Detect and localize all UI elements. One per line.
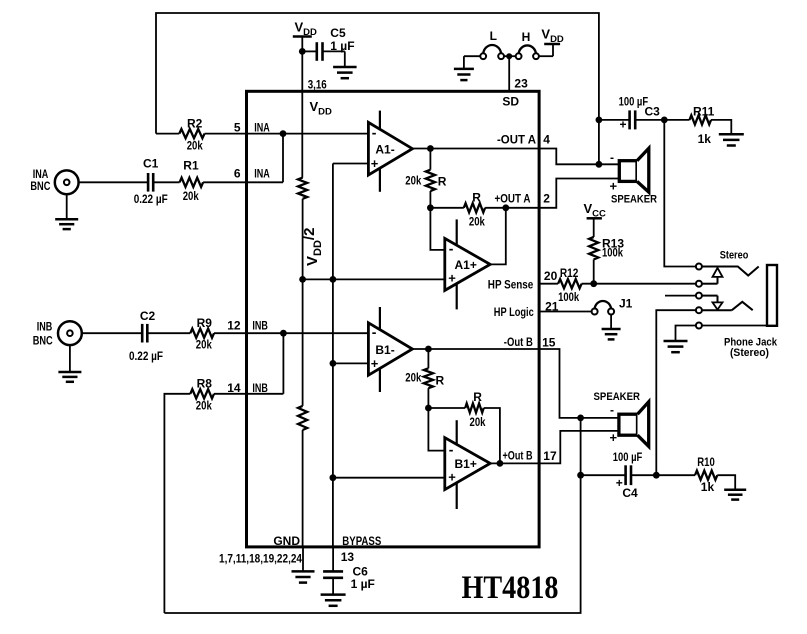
wire B1+ output [490,462,539,464]
wire +OUTA to pin2 [506,207,539,209]
node speaker B minus [577,415,584,422]
wire R11 to ground [711,120,731,134]
jack switch arm upper [702,268,723,284]
svg-text:J1: J1 [619,296,633,310]
wire C2 to R9 [148,332,190,334]
wire -OutB to pin15 [428,348,539,350]
svg-text:-OUT A: -OUT A [497,132,536,146]
wire A1- output [412,148,430,150]
wire jack sleeve left [676,326,696,342]
svg-text:1,7,11,18,19,22,24: 1,7,11,18,19,22,24 [219,552,302,566]
speaker B [594,391,649,446]
wire loop to R2 [156,133,179,135]
svg-text:GND: GND [273,534,300,548]
label pin 6 INA [234,167,270,181]
wire pin21 HP Logic [539,311,592,313]
wire R1 to pin6 INA [203,181,283,183]
wire B1+ minus input [428,408,444,451]
wire R10 to ground [717,475,735,490]
resistor R upper A (20k) [405,170,446,191]
label pin 23 SD [502,77,528,109]
op-amp A1+ [445,219,490,309]
wire A1+ output up [490,208,506,265]
svg-text:BNC: BNC [33,333,53,347]
capacitor C6 [323,565,375,595]
wire divider lower [302,279,304,406]
node divider mid [299,276,306,283]
svg-text:HP Sense: HP Sense [488,278,534,292]
node C4 left [577,472,584,479]
svg-text:23: 23 [514,77,528,91]
svg-text:A1-: A1- [375,143,394,157]
wire R13 to HP Sense [593,259,595,283]
label pin 15 -Out B [504,335,556,350]
node B mid [425,405,432,412]
svg-text:C5: C5 [330,26,346,40]
wire C1 to R1 [154,181,180,183]
svg-text:H: H [522,30,531,44]
BNC connector INA [30,167,78,194]
resistor R2 [179,116,204,152]
svg-text:20k: 20k [405,173,421,187]
capacitor C5 [317,26,355,61]
svg-text:R8: R8 [197,376,213,390]
svg-text:C4: C4 [622,486,638,500]
ground GND pin [292,571,315,582]
node rail at B1+ row [330,474,337,481]
svg-text:1k: 1k [701,480,715,494]
svg-text:+: + [610,430,618,445]
svg-text:-: - [610,403,614,417]
wire to R horizontal B [428,407,465,409]
wire jack sleeve to body [702,325,767,327]
wire pin2 to speaker A plus [539,179,619,208]
wire BNC INA to C1 [79,181,148,183]
op-amp B1+ [445,420,490,509]
svg-text:INB: INB [252,381,268,395]
svg-text:L: L [490,29,497,43]
svg-text:100k: 100k [602,246,623,260]
op-amp A1- [368,111,412,192]
resistor R10 [695,455,717,494]
svg-text:14: 14 [227,381,241,395]
resistor VDD/2 divider lower [298,406,307,430]
resistor R12 (100k) [558,266,582,304]
wire R9 to pin12 INB [214,332,283,334]
wire to R10 [656,474,695,476]
svg-text:21: 21 [545,300,559,314]
wire C5 left [302,50,316,52]
label Phone Jack [724,336,778,359]
wire pin4 to speaker A minus [539,149,619,165]
ground R11 [719,134,744,145]
svg-text:INA: INA [254,121,270,135]
svg-text:0.22 µF: 0.22 µF [129,349,163,363]
svg-text:20k: 20k [187,139,203,153]
svg-text:4: 4 [543,133,550,147]
resistor R13 (100k) [589,237,624,260]
wire speaker B minus to C4 [580,418,582,475]
node rail at B1- row [330,360,337,367]
svg-text:R10: R10 [697,455,715,469]
label BYPASS pin [341,534,382,564]
svg-text:B1+: B1+ [455,457,477,471]
wire pin6 to pin5 join [282,134,284,183]
jack contact 3 [696,293,702,299]
capacitor C2 [129,309,163,363]
svg-text:HT4818: HT4818 [462,570,559,606]
svg-text:-: - [372,125,377,141]
svg-text:0.22 µF: 0.22 µF [134,192,168,206]
svg-text:+: + [371,356,379,371]
svg-text:20: 20 [544,269,558,283]
VCC supply symbol [584,201,607,237]
wire jack ring stub [665,295,696,297]
svg-text:-Out B: -Out B [504,335,533,349]
resistor VDD/2 divider upper [298,178,307,199]
jack contact 4 [696,307,702,313]
node VDD-C5 junction [299,48,306,55]
capacitor C3 [619,94,661,131]
svg-text:R11: R11 [693,104,715,118]
svg-text:A1+: A1+ [455,258,477,272]
svg-text:20k: 20k [196,338,212,352]
ground C5 [333,67,357,78]
wire R to +OutB [484,408,500,463]
wire A1- plus branch [333,163,369,165]
jack tip spring lower [702,302,753,310]
wire BNC INA stem [66,194,68,219]
svg-text:INB: INB [37,320,53,334]
wire B1+ plus input [333,477,445,479]
label Stereo [720,250,749,262]
jack contact 5 (sleeve) [696,323,702,329]
wire R to +OUTA [485,207,506,209]
node A mid [427,204,434,211]
wire VDD rail into box [301,51,303,177]
svg-text:BYPASS: BYPASS [342,534,381,548]
wire R tap down [429,149,431,170]
wire divider middle [302,199,304,280]
ground R10 [724,490,746,500]
svg-text:12: 12 [227,319,241,333]
svg-text:R: R [436,374,445,388]
wire C3 right [636,119,664,121]
resistor R11 [690,104,715,146]
wire R8 to pin14 INB [214,393,283,395]
resistor R8 [190,376,214,412]
label pin 20 HP Sense [488,269,558,292]
label pin 17 +Out B [503,448,557,463]
svg-text:+Out B: +Out B [503,448,533,462]
op-amp B1- [368,307,412,392]
wire jack4 riser [656,310,696,475]
node C3 left [596,117,603,124]
svg-text:(Stereo): (Stereo) [730,347,769,359]
wire R to B mid [427,388,429,408]
svg-text:+: + [616,476,623,490]
resistor R feedback A (20k) [464,190,485,228]
label GND pins [219,534,302,566]
resistor R1 [180,159,204,203]
wire bottom feedback run [164,475,580,613]
jumper J1 [592,296,633,314]
node INA join [280,130,287,137]
ground BNC INA [55,219,78,229]
wire pin15 to speaker B minus [539,349,619,418]
svg-text:C1: C1 [143,156,159,170]
jack body [767,265,777,326]
jack contact 2 [696,281,702,287]
wire BNC INB stem [69,345,71,372]
wire R12 to jack [582,283,696,285]
node +OutB [497,460,504,467]
svg-text:R: R [473,390,482,404]
svg-text:17: 17 [543,449,557,463]
svg-text:3,16: 3,16 [308,78,327,92]
svg-text:-: - [372,324,377,340]
ground C6 [321,595,346,606]
svg-text:20k: 20k [196,399,212,413]
wire R tap down B [427,349,429,368]
wire BYPASS pin down [332,478,334,572]
label HT4818 [462,570,559,606]
resistor R9 [190,316,214,352]
node HP Sense [590,280,597,287]
node speaker A minus [596,161,603,168]
wire to R horizontal A [430,207,463,209]
IC box HT4818 [247,91,540,547]
svg-text:INA: INA [254,167,270,181]
wire C3 node to jack tip [664,120,696,267]
wire VDD/2 rail [332,164,334,478]
svg-text:BNC: BNC [30,179,50,193]
label pin 14 INB [227,381,268,395]
svg-text:SPEAKER: SPEAKER [611,194,657,206]
ground BNC INB [58,372,81,382]
wire A1+ minus input [430,208,444,250]
wire pin14 to pin12 join [282,333,284,394]
resistor R upper B (20k) [405,368,444,388]
wire C3 left [599,119,629,121]
node INB join [280,330,287,337]
svg-text:R: R [438,174,447,188]
wire pin20 to R12 [539,283,558,285]
ground jumper L [454,69,474,80]
jack contact 1 (tip L) [696,264,702,270]
svg-text:C3: C3 [645,105,661,119]
wire pin17 to speaker B plus [539,431,619,464]
BNC connector INB [33,320,82,348]
wire A1+ plus input [303,278,445,280]
ground J1 [602,329,621,339]
svg-text:1k: 1k [698,132,712,146]
label pin 12 INB [227,319,268,333]
svg-text:SPEAKER: SPEAKER [594,391,641,403]
resistor R feedback B (20k) [465,390,486,429]
wire B1- minus input [283,332,368,334]
node +OUTA [502,204,509,211]
jack tip spring upper [702,267,759,276]
node rail at A1+ row [330,276,337,283]
wire -OUTA node vertical to speaker minus [598,120,600,164]
capacitor C4 [613,450,643,500]
wire R to +OUTA node [429,191,431,208]
jack switch arm lower [702,296,723,310]
wire to R11 [664,119,689,121]
wire -OUTA to pin4 [430,148,539,150]
svg-text:20k: 20k [405,370,421,384]
wire B1- plus branch [333,362,369,364]
svg-text:INB: INB [252,319,268,333]
wire C5 right to ground [323,51,345,67]
svg-text:20k: 20k [183,189,199,203]
node C3-R11 [661,117,668,124]
pin 3,16 VDD label [308,78,332,118]
svg-text:6: 6 [234,167,241,181]
node SD junction [506,53,512,59]
svg-text:100 µF: 100 µF [613,450,643,464]
svg-text:R9: R9 [197,316,213,330]
svg-text:+: + [371,156,379,171]
svg-text:+: + [610,178,618,193]
node -OUTA feedback tap [427,145,434,152]
svg-text:-: - [449,442,454,458]
capacitor C1 [134,156,168,206]
speaker A [610,148,658,205]
label pin 2 +OUT A [495,191,551,205]
svg-text:13: 13 [341,550,355,564]
svg-text:+: + [448,270,456,285]
wire R8 left to bottom feedback [164,394,190,613]
svg-text:-: - [449,241,454,257]
VDD supply symbol (C5) [293,20,317,52]
svg-text:Stereo: Stereo [720,250,749,262]
svg-text:1 µF: 1 µF [351,577,375,591]
svg-text:B1-: B1- [375,343,394,357]
node C4-R10 [653,472,660,479]
wire B1- output [412,348,428,350]
node -OutB feedback tap [425,346,432,353]
jumper header L/H [464,29,553,69]
svg-text:15: 15 [542,336,556,350]
wire R2 to A1- minus input [205,133,369,135]
wire C4 right [632,474,657,476]
wire top feedback loop (pin5 INA to -OUTA/C3 node) [156,13,599,134]
svg-text:R: R [472,190,481,204]
wire BNC INB to C2 [82,332,142,334]
svg-text:HP Logic: HP Logic [494,305,534,319]
VDD supply at jumper [541,27,564,57]
wire C4 left [581,474,625,476]
svg-text:C2: C2 [140,309,156,323]
svg-text:5: 5 [234,121,241,135]
wire J1 to ground [610,315,612,330]
label pin 5 INA [234,121,270,135]
label pin 21 HP Logic [494,300,559,319]
svg-text:R12: R12 [560,266,579,280]
svg-text:-: - [610,151,614,165]
svg-text:+OUT A: +OUT A [495,192,531,206]
svg-text:20k: 20k [470,415,486,429]
svg-text:+: + [620,118,627,132]
wire divider to GND pin [302,430,304,571]
ground jack sleeve [664,341,688,352]
svg-text:2: 2 [543,191,550,205]
svg-text:20k: 20k [469,214,485,228]
svg-text:R1: R1 [183,159,199,173]
svg-text:100k: 100k [558,290,579,304]
wire SD pin 23 [508,56,510,91]
label VDD/2 rotated [301,228,324,266]
label pin 4 -OUT A [497,132,550,146]
svg-text:R2: R2 [187,116,203,130]
svg-text:+: + [448,470,456,485]
svg-text:SD: SD [502,94,519,108]
